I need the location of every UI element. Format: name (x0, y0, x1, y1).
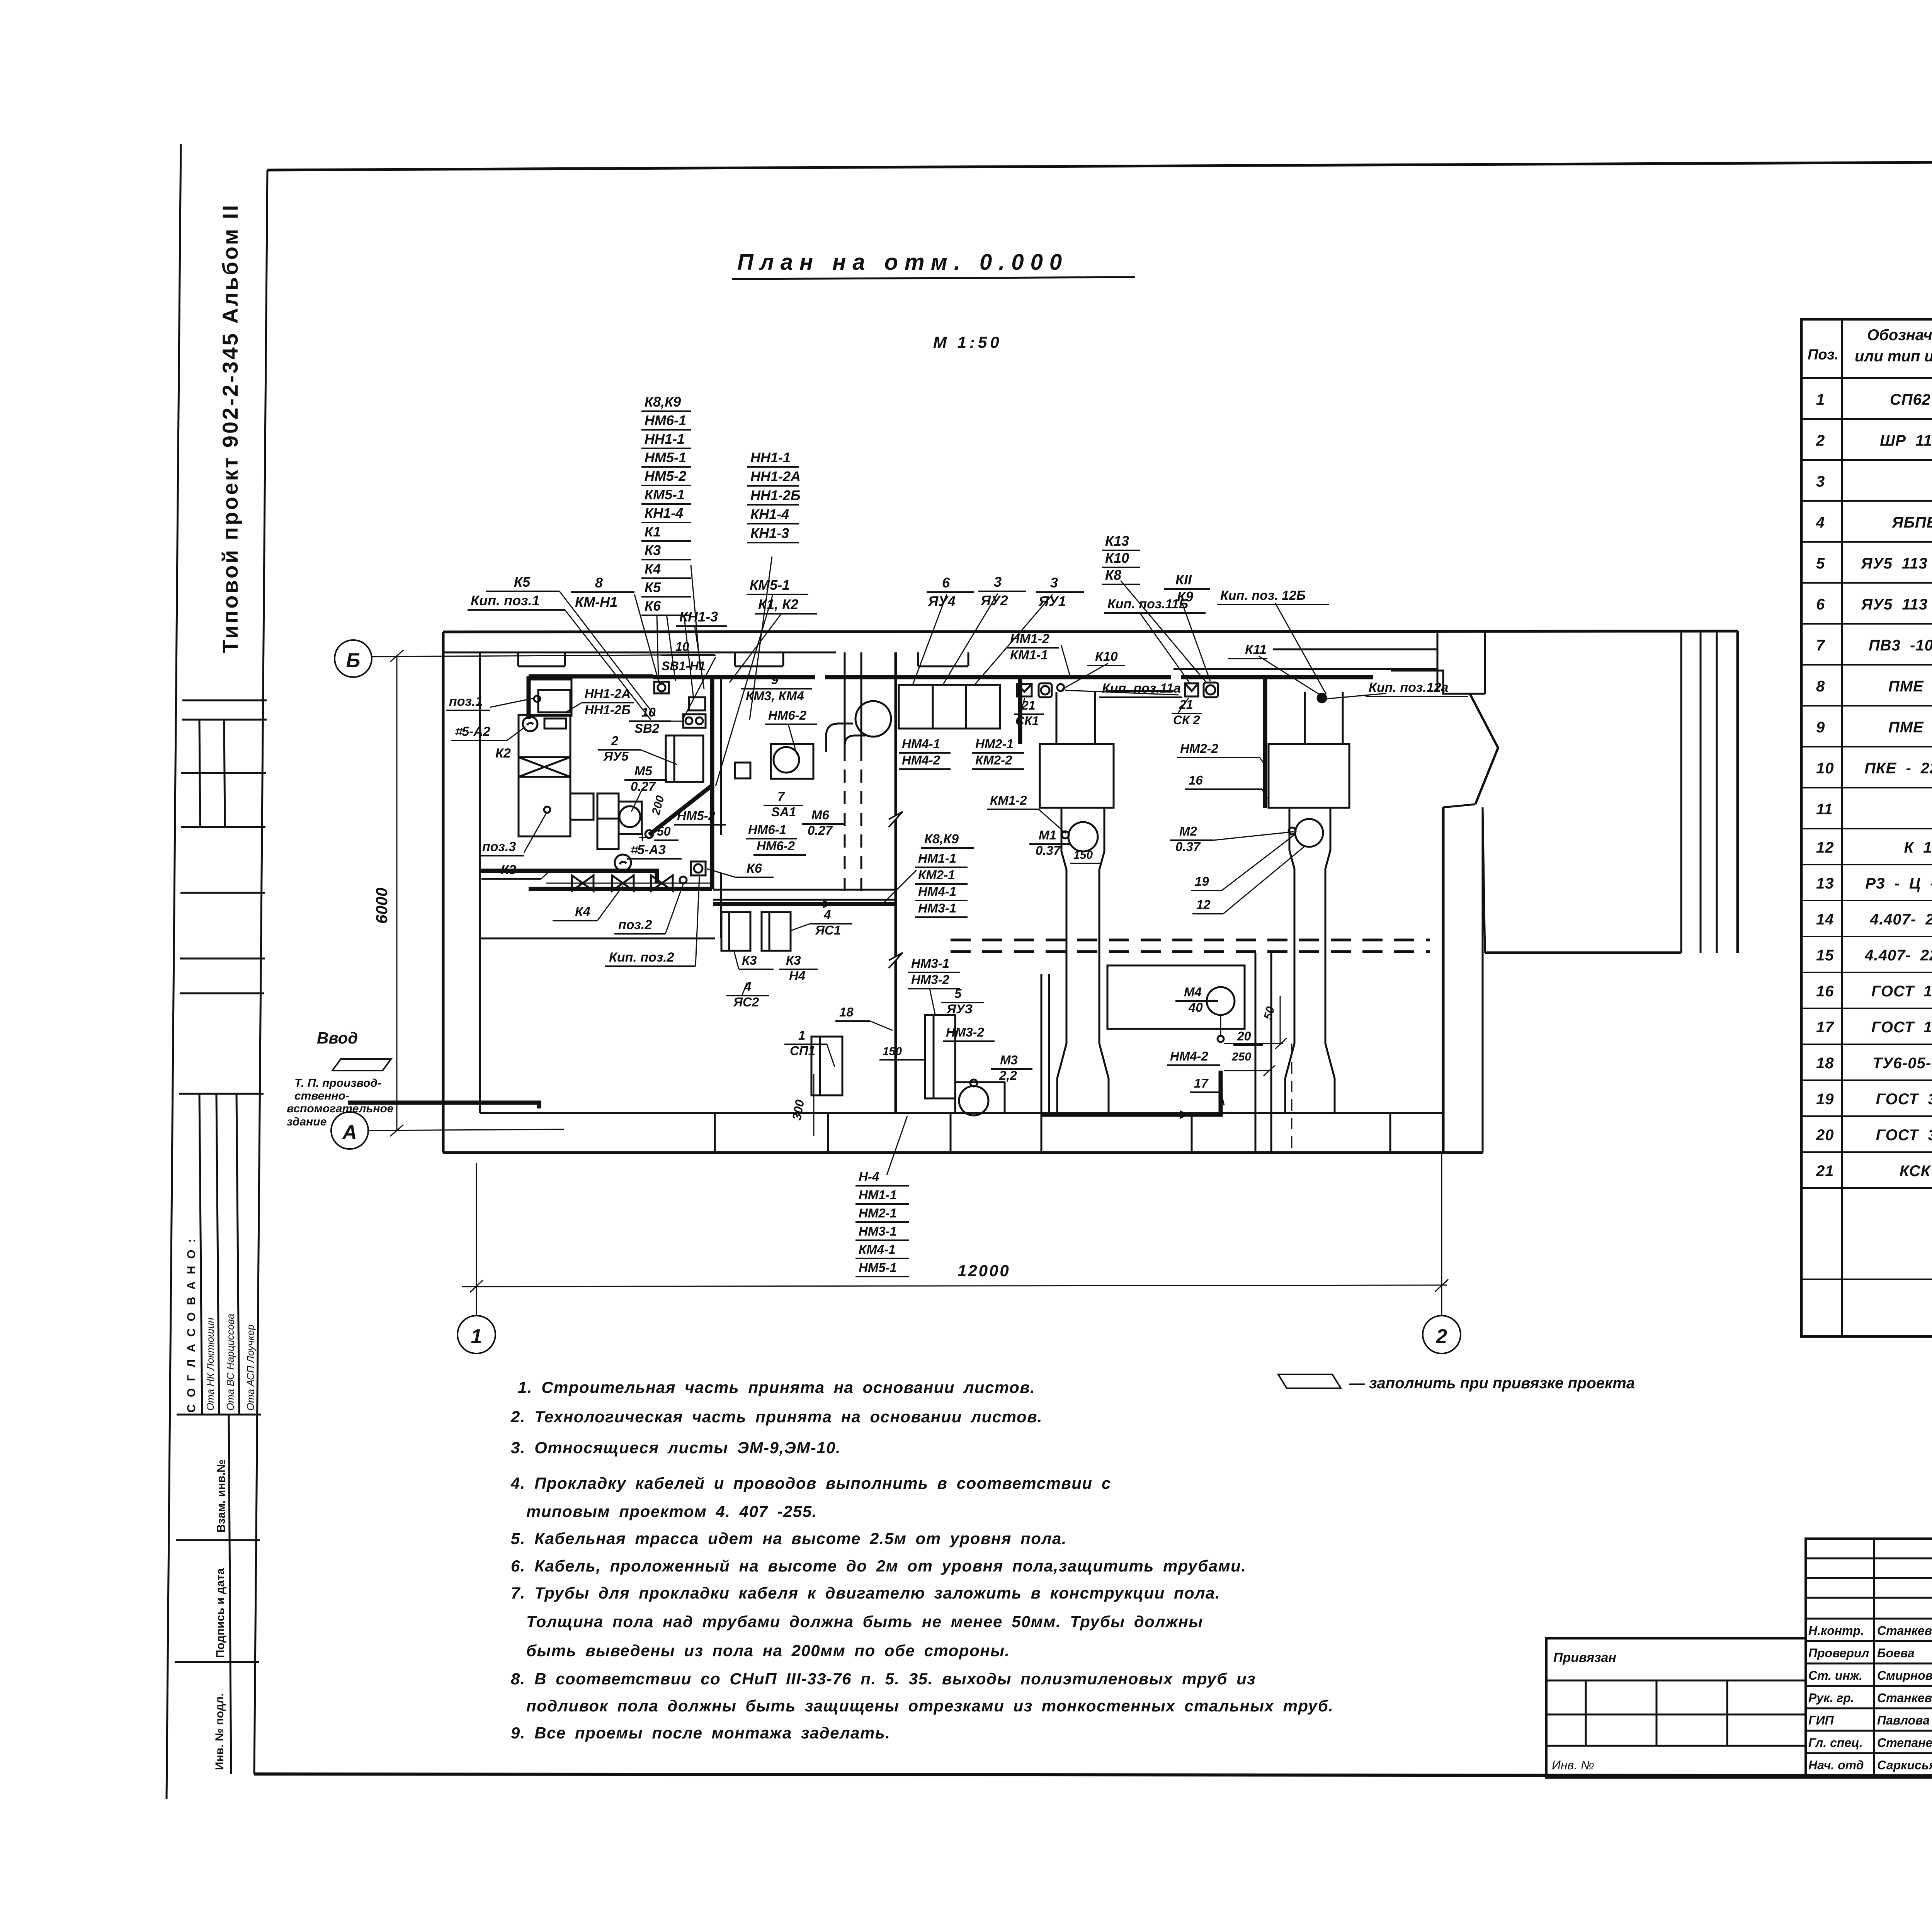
device K6 box (691, 861, 706, 875)
axis 1 circle (457, 1316, 495, 1353)
svg-text:НМ3-1: НМ3-1 (859, 1224, 897, 1238)
svg-text:19: 19 (1195, 874, 1209, 889)
svg-text:20: 20 (1237, 1029, 1251, 1043)
sidebar label inv n podl (213, 1693, 226, 1770)
svg-text:2: 2 (1436, 1325, 1447, 1348)
svg-text:НН1-1: НН1-1 (645, 431, 685, 447)
svg-text:КН1-4: КН1-4 (750, 506, 789, 522)
title block small grid top rows (1806, 1539, 1932, 1777)
svg-text:К8: К8 (1105, 567, 1121, 583)
svg-text:ПМЕ - 121: ПМЕ - 121 (1888, 678, 1932, 695)
svg-text:НМ5-1: НМ5-1 (859, 1260, 897, 1275)
cable room A outline top (529, 674, 653, 679)
svg-text:Павлова: Павлова (1877, 1713, 1930, 1727)
axis 1 line vertical (476, 1163, 477, 1316)
sidebar internal dividers (182, 700, 267, 701)
svg-text:К8,К9: К8,К9 (924, 832, 959, 846)
cable vertical to M1 (1018, 678, 1022, 744)
frame top border (267, 160, 1932, 170)
axis 2 line vertical (1441, 1153, 1442, 1316)
svg-text:Поз.: Поз. (1808, 347, 1839, 363)
valve bowtie (651, 875, 673, 891)
device +50 small circle (645, 830, 653, 838)
svg-text:4.407- 235- 011: 4.407- 235- 011 (1870, 911, 1932, 928)
wall x2318 break marks (889, 812, 903, 827)
M4 drop line (1220, 1015, 1221, 1036)
svg-text:Ота АСП Лоучкер: Ота АСП Лоучкер (245, 1325, 256, 1411)
frame left border (254, 170, 267, 1774)
svg-text:К11: К11 (1245, 642, 1267, 657)
svg-text:НМ2-1: НМ2-1 (975, 737, 1014, 751)
svg-text:16: 16 (1816, 983, 1834, 1000)
wall upper right room band (1105, 690, 1173, 692)
cable along top wall (653, 675, 1373, 679)
wall building top inner left part (443, 652, 836, 654)
wall building left outer (442, 632, 445, 1153)
svg-text:3: 3 (1816, 473, 1825, 490)
device SB2 (683, 714, 706, 728)
device SK1 envelope (1017, 684, 1032, 696)
leader line (913, 594, 947, 685)
cable arrow on m4 run (1180, 1110, 1189, 1119)
axis A circle (331, 1112, 368, 1149)
svg-text:К3: К3 (786, 953, 801, 967)
svg-text:8: 8 (1816, 678, 1825, 695)
svg-text:К3: К3 (645, 542, 661, 558)
svg-text:6: 6 (1816, 596, 1825, 613)
table row lines (1801, 418, 1932, 420)
wall window sills left top (518, 666, 565, 667)
svg-text:Б: Б (346, 649, 361, 672)
svg-text:НН1-2А: НН1-2А (750, 468, 801, 484)
dim 250 line (1224, 1070, 1271, 1071)
svg-text:50: 50 (657, 824, 671, 838)
cable diagonal to M5 area (649, 785, 712, 835)
svg-text:НМ3-2: НМ3-2 (946, 1025, 985, 1039)
svg-text:К1: К1 (645, 524, 661, 540)
M1 riser lines (1056, 692, 1058, 744)
leader line (1275, 603, 1326, 694)
table header separator (1801, 377, 1932, 379)
vvod parallelogram (332, 1059, 391, 1071)
svg-text:10: 10 (1816, 760, 1834, 777)
table column lines (1841, 319, 1843, 1336)
svg-text:НМ4-1: НМ4-1 (918, 884, 956, 899)
svg-text:НМ5-1: НМ5-1 (645, 449, 686, 465)
device SK2 envelope (1185, 683, 1198, 696)
cable bottom right M4 (1041, 1071, 1221, 1115)
svg-text:4: 4 (1816, 514, 1825, 531)
frame bottom border (254, 1774, 1932, 1776)
svg-text:НМ6-2: НМ6-2 (757, 839, 795, 853)
svg-text:Кип. поз.12а: Кип. поз.12а (1369, 680, 1448, 695)
equip M5 pump box (619, 802, 642, 834)
svg-text:6000: 6000 (372, 888, 391, 924)
dim 20 line (1224, 1043, 1283, 1044)
svg-text:4.407- 229 - 014: 4.407- 229 - 014 (1864, 947, 1932, 964)
wall horizontal y2428 left room (480, 938, 715, 940)
svg-text:М4: М4 (1184, 985, 1202, 999)
equip SP1 cabinet (811, 1037, 842, 1095)
dashed water level lines (951, 940, 1430, 952)
axis A line (368, 1129, 564, 1130)
svg-text:Толщина пола над трубами д: Толщина пола над трубами должна быть не … (526, 1612, 1203, 1631)
svg-text:3: 3 (1050, 575, 1058, 591)
svg-text:К10: К10 (1105, 550, 1129, 566)
privyazan block (1546, 1638, 1806, 1777)
title block signer rows (1806, 1618, 1932, 1620)
axis B circle (335, 640, 372, 677)
svg-text:8: 8 (595, 575, 603, 591)
svg-text:К4: К4 (645, 561, 661, 577)
wall building top outer (443, 631, 1738, 632)
svg-text:Станкевич: Станкевич (1877, 1691, 1932, 1705)
vvod entry thick line (348, 1103, 539, 1108)
leader line (730, 614, 781, 683)
svg-text:12: 12 (1196, 897, 1211, 912)
svg-text:— заполнить при привязке п: — заполнить при привязке проекта (1349, 1375, 1635, 1392)
svg-text:11: 11 (1816, 801, 1833, 818)
cable hall south run (713, 902, 896, 906)
svg-text:Взам. инв.№: Взам. инв.№ (215, 1459, 228, 1532)
svg-text:2: 2 (1816, 432, 1825, 449)
svg-text:6. Кабель, проложенный на вы: 6. Кабель, проложенный на высоте до 2м о… (511, 1557, 1247, 1575)
svg-text:ГИП: ГИП (1808, 1713, 1834, 1727)
leader line (634, 594, 659, 683)
svg-text:19: 19 (1816, 1091, 1834, 1108)
svg-text:К13: К13 (1105, 533, 1129, 549)
svg-text:0.37: 0.37 (1175, 839, 1201, 854)
svg-text:SВ2: SВ2 (634, 721, 660, 735)
svg-text:Гл. спец.: Гл. спец. (1808, 1736, 1863, 1750)
sidebar label podpis i data (214, 1568, 227, 1658)
svg-text:Станкевич: Станкевич (1877, 1624, 1932, 1638)
M2 riser lines (1304, 692, 1306, 744)
svg-text:СП1: СП1 (790, 1044, 815, 1058)
cable vertical x3274 (tube 16 to M2) (1263, 678, 1267, 808)
sidebar label vzam inv (215, 1459, 228, 1532)
channel verticals mid (1255, 953, 1257, 1113)
svg-text:Ота НК Локтюшин: Ота НК Локтюшин (204, 1318, 216, 1411)
svg-text:Степаненко: Степаненко (1877, 1736, 1932, 1750)
device K10 circle (1057, 684, 1064, 691)
svg-text:Ота ВС Нарциссова: Ота ВС Нарциссова (224, 1314, 236, 1411)
svg-text:21: 21 (1021, 698, 1036, 712)
stamp signer labels (1808, 1624, 1932, 1772)
svg-text:НМ1-2: НМ1-2 (1010, 632, 1049, 646)
dim line 6000 vertical (396, 656, 398, 1130)
svg-text:4. Прокладку кабелей и пр: 4. Прокладку кабелей и проводов выполнит… (510, 1474, 1111, 1492)
leader line (1140, 613, 1189, 683)
device SK1 box (1039, 683, 1052, 697)
svg-text:5: 5 (1816, 555, 1825, 572)
svg-text:ЯУЗ: ЯУЗ (946, 1002, 973, 1016)
wall main vertical x2318 (895, 652, 897, 1113)
equip M2 base rect (1269, 744, 1349, 808)
svg-text:КН1-4: КН1-4 (645, 505, 683, 521)
svg-text:9. Все проемы после монта: 9. Все проемы после монтажа заделать. (511, 1724, 890, 1742)
svg-text:18: 18 (1816, 1055, 1834, 1072)
cable arrow on hall run (823, 900, 832, 908)
device K11 dot (1318, 694, 1326, 702)
svg-text:К5: К5 (645, 579, 661, 595)
leader line (1259, 656, 1321, 696)
wall bay right striped end (1680, 631, 1682, 953)
svg-text:КМ1-1: КМ1-1 (1010, 648, 1048, 662)
svg-text:КН1-3: КН1-3 (750, 525, 789, 541)
wall partition P2 upper solid (844, 652, 846, 748)
cable room A left (527, 676, 531, 719)
wall building bottom inner (480, 1112, 1443, 1114)
svg-text:СК1: СК1 (1015, 714, 1039, 728)
equip X-brace box (519, 757, 570, 777)
valve row end dot (680, 877, 687, 884)
svg-text:ЯС1: ЯС1 (815, 923, 841, 937)
wall bay left lower (1443, 804, 1475, 807)
svg-text:КII: КII (1175, 572, 1192, 587)
svg-text:НМ1-1: НМ1-1 (918, 851, 956, 865)
svg-text:ЯУ5 113 - 03А2м: ЯУ5 113 - 03А2м (1861, 555, 1932, 572)
svg-text:К8,К9: К8,К9 (645, 394, 681, 410)
equip poz1 indicator (544, 718, 566, 729)
svg-text:4: 4 (744, 979, 751, 994)
svg-text:К5: К5 (514, 574, 531, 590)
svg-text:К6: К6 (645, 598, 661, 614)
pump circle on valve row (615, 855, 631, 871)
svg-text:НМ4-1: НМ4-1 (902, 737, 940, 751)
pump M5 circle (619, 806, 640, 827)
svg-text:М 1:50: М 1:50 (933, 333, 1002, 351)
svg-text:поз.3: поз.3 (482, 839, 516, 854)
wall right lower verticals (1442, 807, 1445, 1153)
svg-text:Типовой проект 902-2-345: Типовой проект 902-2-345 Альбом II (218, 203, 242, 653)
svg-text:Н4: Н4 (789, 969, 805, 983)
svg-text:ГОСТ 18599-73: ГОСТ 18599-73 (1871, 1019, 1932, 1036)
svg-text:быть выведены из пола на: быть выведены из пола на 200мм по обе ст… (526, 1641, 1010, 1660)
svg-text:Ст. инж.: Ст. инж. (1808, 1668, 1862, 1682)
label 200 rotated (650, 794, 667, 817)
svg-text:План на отм. 0.000: План на отм. 0.000 (737, 250, 1068, 275)
svg-text:НМ1-1: НМ1-1 (859, 1188, 897, 1202)
svg-text:0.37: 0.37 (1036, 843, 1061, 858)
svg-text:М2: М2 (1179, 824, 1197, 838)
svg-text:Кип. поз.11Б: Кип. поз.11Б (1107, 597, 1188, 611)
svg-text:12: 12 (1816, 839, 1834, 856)
svg-text:3: 3 (994, 574, 1002, 590)
svg-text:14: 14 (1816, 911, 1834, 928)
leader line (560, 591, 655, 716)
svg-text:типовым проектом 4. 407 -: типовым проектом 4. 407 -255. (526, 1502, 817, 1520)
svg-text:3. Относящиеся листы: 3. Относящиеся листы ЭМ-9,ЭМ-10. (511, 1439, 841, 1457)
svg-text:НМ6-1: НМ6-1 (645, 412, 686, 428)
svg-text:1: 1 (471, 1325, 482, 1348)
valve bowtie (612, 875, 634, 891)
svg-text:ГОСТ 3262-75: ГОСТ 3262-75 (1876, 1127, 1932, 1144)
equip M6 box (771, 744, 813, 779)
svg-text:К2: К2 (495, 746, 511, 761)
svg-text:НН1-1: НН1-1 (750, 449, 791, 465)
svg-text:НМ3-1: НМ3-1 (918, 901, 956, 915)
svg-text:Кип. поз.2: Кип. поз.2 (609, 950, 674, 965)
sidebar soglasovano rotated text (185, 1237, 198, 1413)
svg-text:подливок пола должны быть з: подливок пола должны быть защищены отрез… (526, 1697, 1334, 1715)
device SB1-N1 on wall (654, 682, 669, 693)
svg-text:ПКЕ - 222 - 243: ПКЕ - 222 - 243 (1864, 760, 1932, 777)
general notes text (510, 1378, 1334, 1742)
svg-text:1: 1 (798, 1028, 805, 1042)
svg-text:Боева: Боева (1877, 1646, 1915, 1660)
cabinet bank YAU1/2/4 (899, 685, 1000, 729)
M3 frame (955, 1082, 1005, 1113)
equip poz1 tall block (519, 715, 570, 836)
dashed centerline vertical (1291, 1044, 1293, 1153)
svg-text:К10: К10 (1095, 649, 1118, 664)
leader line (684, 657, 716, 717)
leader line (1327, 693, 1386, 699)
svg-text:СП62 - 8/I: СП62 - 8/I (1890, 391, 1932, 408)
svg-text:5: 5 (954, 986, 962, 1001)
axis B line (372, 655, 715, 657)
svg-text:КМ5-1: КМ5-1 (645, 487, 685, 502)
svg-text:НМ6-2: НМ6-2 (768, 708, 807, 722)
label 50 rotated (1262, 1005, 1277, 1021)
svg-text:М3: М3 (1000, 1053, 1018, 1067)
leader line (1061, 645, 1070, 677)
svg-text:7: 7 (777, 789, 785, 804)
svg-text:Инв. №: Инв. № (1552, 1758, 1594, 1772)
vent duct stub (826, 724, 866, 752)
svg-text:ТУ6-05-1513-72: ТУ6-05-1513-72 (1872, 1055, 1932, 1072)
svg-text:17: 17 (1816, 1019, 1834, 1036)
equip YAU5 cabinet (666, 735, 703, 782)
label 300 rotated (789, 1098, 807, 1121)
wall building bottom outer (443, 1151, 1483, 1154)
svg-text:1: 1 (1816, 391, 1825, 408)
svg-text:поз.2: поз.2 (618, 918, 652, 932)
svg-text:9: 9 (1816, 719, 1825, 736)
legend parallelogram (1278, 1374, 1341, 1388)
svg-text:НМ5-2: НМ5-2 (677, 809, 716, 823)
svg-text:250: 250 (1231, 1050, 1251, 1063)
svg-text:SА1: SА1 (771, 805, 796, 819)
svg-text:НН1-2Б: НН1-2Б (585, 703, 631, 717)
equip M1 base rect (1040, 744, 1114, 808)
M1 tank neck (1057, 808, 1066, 1113)
valve bowtie (572, 875, 594, 891)
svg-text:5. Кабельная трасса идет на: 5. Кабельная трасса идет на высоте 2.5м … (511, 1529, 1067, 1548)
svg-text:К 1082: К 1082 (1904, 839, 1932, 856)
equip basin M4 (1107, 965, 1245, 1029)
svg-text:К3: К3 (742, 953, 757, 967)
svg-text:НМ3-1: НМ3-1 (911, 956, 949, 970)
leader line (657, 615, 658, 679)
svg-text:НН1-2Б: НН1-2Б (750, 487, 801, 503)
svg-text:ЯБПВ - 1: ЯБПВ - 1 (1892, 514, 1932, 531)
svg-text:КМ3, КМ4: КМ3, КМ4 (746, 689, 804, 703)
pump M4 circle (1207, 987, 1235, 1015)
svg-text:15: 15 (1816, 947, 1834, 964)
svg-text:К3: К3 (501, 863, 516, 877)
equip M5 stacked boxes (597, 793, 619, 819)
leader line (716, 594, 773, 786)
device NM box (689, 697, 705, 710)
svg-text:Проверил: Проверил (1808, 1646, 1869, 1660)
svg-text:⌗5-А2: ⌗5-А2 (454, 724, 490, 739)
leader line (1121, 581, 1206, 683)
svg-text:Инв. № подл.: Инв. № подл. (213, 1693, 226, 1770)
leader line (1065, 690, 1179, 695)
pump M6 circle (774, 747, 799, 773)
svg-text:К4: К4 (575, 904, 590, 919)
svg-text:Привязан: Привязан (1553, 1650, 1616, 1665)
svg-text:1. Строительная часть приня: 1. Строительная часть принята на основан… (518, 1378, 1035, 1396)
svg-text:17: 17 (1194, 1076, 1209, 1090)
pump M2 circle (1295, 819, 1323, 847)
svg-text:А: А (342, 1121, 357, 1144)
svg-text:2,2: 2,2 (999, 1068, 1017, 1083)
dim line 12000 (462, 1285, 1447, 1287)
svg-text:40: 40 (1188, 1000, 1203, 1015)
svg-text:10: 10 (641, 705, 656, 719)
svg-text:М5: М5 (634, 764, 652, 778)
wall building left inner (479, 652, 481, 1113)
svg-text:4: 4 (823, 907, 831, 922)
dim 50 vertical tick (1280, 996, 1281, 1044)
svg-text:13: 13 (1816, 875, 1834, 892)
svg-text:9: 9 (771, 672, 779, 687)
svg-text:НМ4-2: НМ4-2 (1170, 1049, 1209, 1063)
leader line (1062, 663, 1108, 690)
wall partition M3 room (1041, 974, 1043, 1113)
wall window sill right top (1273, 649, 1437, 650)
svg-text:Нач. отд: Нач. отд (1808, 1758, 1864, 1772)
svg-text:7. Трубы для прокладки кабел: 7. Трубы для прокладки кабеля к двигател… (511, 1584, 1220, 1602)
svg-text:0.27: 0.27 (631, 779, 656, 793)
svg-text:ПМЕ - 083: ПМЕ - 083 (1888, 719, 1932, 736)
svg-text:НМ5-2: НМ5-2 (645, 468, 686, 484)
sidebar album title rotated text (218, 203, 242, 653)
svg-text:НМ6-1: НМ6-1 (748, 822, 786, 837)
poz3 leader dot (544, 807, 550, 813)
leader line (943, 594, 998, 685)
wall hall south band (713, 889, 896, 891)
sidebar sub column lines (sogl section) (199, 1094, 202, 1415)
svg-text:здание: здание (287, 1115, 327, 1128)
svg-text:ЯС2: ЯС2 (733, 995, 759, 1009)
wall bay bottom (1485, 952, 1681, 954)
svg-text:М6: М6 (811, 808, 829, 822)
leader line (695, 626, 704, 689)
svg-text:или тип изделия: или тип изделия (1855, 348, 1932, 365)
svg-text:8. В соответствии со СНиП: 8. В соответствии со СНиП III-33-76 п. 5… (511, 1670, 1256, 1688)
pump M1 circle (1068, 822, 1098, 851)
svg-text:КМ2-1: КМ2-1 (918, 868, 955, 882)
leader line (975, 594, 1053, 685)
leader line (667, 615, 675, 681)
entry building text (287, 1077, 393, 1128)
svg-text:НН1-2А: НН1-2А (585, 686, 631, 701)
svg-text:ГОСТ 3262-75: ГОСТ 3262-75 (1876, 1091, 1932, 1108)
svg-text:Подпись и дата: Подпись и дата (214, 1568, 227, 1658)
svg-text:Кип. поз. 12Б: Кип. поз. 12Б (1220, 588, 1306, 603)
svg-text:ШР 116 - 69: ШР 116 - 69 (1880, 432, 1932, 449)
device SA1 box (735, 763, 750, 778)
wall partition P1 (thin line) (720, 676, 722, 835)
axis 2 circle (1423, 1316, 1461, 1353)
svg-text:С О Г Л А С О В А Н О :: С О Г Л А С О В А Н О : (185, 1237, 198, 1413)
leader line (565, 610, 651, 720)
poz1 leader dot (534, 696, 540, 702)
